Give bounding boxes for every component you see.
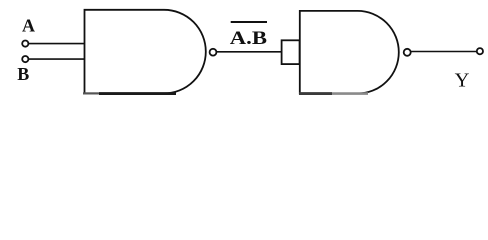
NAND gate U2 bottom light segment: [332, 92, 368, 95]
overline of A.B: [231, 21, 267, 23]
input terminal B: [22, 56, 28, 62]
NAND gate U2 bottom edge (thick): [299, 92, 332, 95]
NAND gate U2 output bubble: [404, 49, 411, 56]
svg-text:A.B: A.B: [230, 28, 268, 49]
NAND gate U1 bottom-left ledge: [83, 92, 99, 94]
svg-text:Y: Y: [455, 70, 470, 92]
NAND gate U2 body: [300, 11, 399, 94]
NAND gate U1 output bubble: [210, 49, 217, 56]
svg-text:A: A: [22, 16, 35, 36]
wire node A.B: [217, 51, 282, 53]
wire Y: [411, 51, 477, 53]
wire A: [29, 43, 84, 45]
wire B: [29, 58, 84, 60]
input terminal A: [22, 41, 28, 47]
NAND gate U1 bottom edge (thick): [99, 92, 176, 95]
svg-text:B: B: [17, 64, 29, 84]
input tie box of U2: [282, 40, 300, 64]
output terminal Y: [477, 48, 483, 54]
NAND gate U1 body: [85, 10, 206, 94]
